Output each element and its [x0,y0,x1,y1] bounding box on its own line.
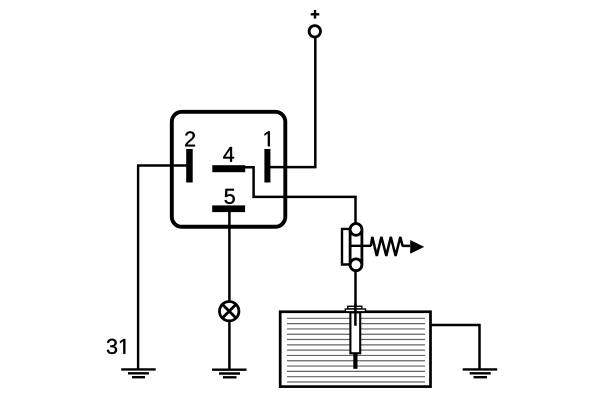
sensor tube in tank [350,312,360,353]
fuel tank outline [280,312,430,387]
relay pin 2 terminal bar [186,149,193,183]
ground symbol right [463,369,498,377]
sensor flange lower plate [345,309,365,312]
wire lamp to center ground [228,321,231,370]
wire battery plus terminal to relay pin 1 [270,38,315,168]
wire relay pin 2 to node 31 and left ground [138,166,187,370]
wire relay pin 5 to lamp [228,212,231,303]
switch actuator spring [371,237,410,256]
relay pin 1 label [265,131,270,146]
relay pin 1 terminal bar [264,149,270,183]
sensor flange upper plate [348,306,362,309]
fuel tank hatching [287,318,425,382]
wire fuel tank to right ground [431,325,480,369]
relay pin 2 label [185,131,195,146]
ground symbol left [121,369,156,377]
wire level switch to tank sensor [354,271,357,326]
wire relay pin 4 to level switch [245,167,356,223]
relay pin 4 label [223,147,234,162]
node 31 label [107,339,125,354]
relay pin 5 terminal bar [212,205,245,212]
lamp H1 [220,302,239,321]
switch actuator arrow [410,240,424,254]
relay pin 4 terminal bar [212,165,245,172]
sensor tip electrode [353,353,357,369]
ground symbol center [212,370,247,378]
level switch S1 bracket [342,229,350,265]
wire into sensor tube [354,303,357,326]
battery plus terminal circle [309,26,320,37]
level switch S1 contact capsule [350,224,362,271]
relay K1 outline [172,112,285,227]
battery plus terminal label [311,10,320,19]
relay pin 5 label [225,189,235,204]
switch actuator rod [350,245,371,247]
